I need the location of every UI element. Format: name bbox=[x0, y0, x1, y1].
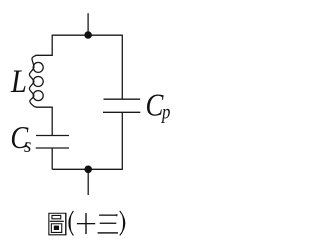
glyph ) bbox=[119, 211, 125, 236]
glyph 十 bbox=[77, 213, 95, 234]
svg-text:s: s bbox=[24, 134, 32, 157]
wire top terminal stub bbox=[87, 13, 89, 35]
label Cp bbox=[146, 88, 171, 124]
node bottom junction dot bbox=[84, 166, 92, 174]
wire left vertical upper (top wire to inductor) bbox=[51, 35, 53, 56]
wire bottom horizontal bbox=[52, 168, 122, 170]
wire right vertical lower (Cp to bottom wire) bbox=[121, 112, 123, 170]
glyph 三 bbox=[98, 214, 118, 233]
node top junction dot bbox=[84, 31, 92, 39]
capacitor Cs bbox=[36, 136, 69, 149]
wire left vertical lower (Cs to bottom wire) bbox=[51, 148, 53, 169]
caption 圖(十三) bbox=[48, 211, 125, 236]
wire top horizontal bbox=[52, 34, 122, 36]
svg-text:p: p bbox=[160, 101, 170, 124]
svg-text:L: L bbox=[10, 63, 27, 99]
glyph ( bbox=[68, 211, 73, 236]
wire right vertical upper (top wire to Cp) bbox=[121, 35, 123, 100]
wire left vertical (inductor to Cs) bbox=[51, 107, 53, 135]
label Cs bbox=[10, 121, 31, 157]
wire bottom terminal stub bbox=[87, 169, 89, 195]
svg-text:C: C bbox=[146, 88, 164, 122]
capacitor Cp bbox=[103, 99, 140, 112]
inductor L bbox=[29, 55, 52, 107]
glyph 圖 bbox=[48, 213, 66, 236]
